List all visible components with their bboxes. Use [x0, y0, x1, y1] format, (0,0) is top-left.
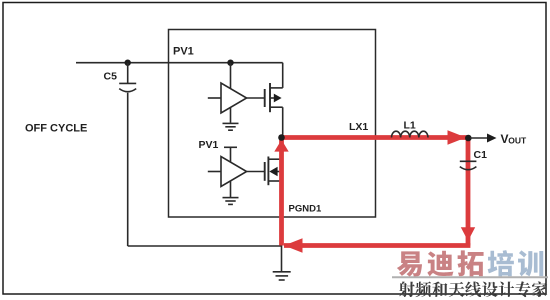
transistor M2 (low-side MOSFET)	[265, 138, 282, 247]
svg-text:PV1: PV1	[173, 46, 194, 58]
red current loop: LX to output	[282, 135, 469, 140]
watermark underline	[392, 276, 548, 278]
label VOUT	[501, 132, 528, 146]
wire: top input rail	[76, 62, 283, 64]
red arrow up	[274, 140, 288, 152]
red current loop: bottom return	[284, 243, 470, 248]
transistor M1 (high-side MOSFET)	[265, 83, 283, 112]
red arrow left	[284, 238, 303, 252]
svg-text:C5: C5	[104, 71, 118, 83]
red arrow down	[461, 227, 475, 241]
ground (system, bottom)	[273, 272, 291, 280]
node VOUT dot	[465, 135, 472, 142]
capacitor C1	[460, 161, 477, 169]
wire: supply into top driver	[230, 63, 232, 90]
svg-text:L1: L1	[404, 120, 416, 132]
red current loop: down through C1	[466, 138, 471, 246]
wire: drain drop from top rail	[282, 63, 284, 88]
red arrow right	[448, 130, 467, 144]
svg-text:PGND1: PGND1	[289, 204, 322, 215]
svg-text:LX1: LX1	[349, 121, 368, 133]
IC boundary box PV1	[169, 30, 376, 218]
svg-text:C1: C1	[474, 149, 488, 161]
ground (lower driver)	[223, 198, 239, 205]
ground (top driver)	[223, 123, 239, 130]
VOUT arrow	[470, 134, 497, 143]
watermark row2	[399, 281, 547, 297]
wire: lower driver ground stem	[230, 181, 232, 197]
node LX1 dot	[278, 134, 285, 141]
op-amp buffer U2 (lower driver)	[221, 157, 247, 187]
wire: bottom ground rail	[128, 245, 282, 247]
wire: top driver input	[208, 97, 221, 99]
red current loop: up to LX	[279, 140, 284, 246]
watermark logo row1	[397, 250, 543, 276]
svg-text:PV1: PV1	[199, 139, 219, 151]
wire: top driver ground stem	[230, 108, 232, 123]
wire: top driver output to gate	[247, 97, 265, 99]
capacitor C5	[119, 63, 136, 246]
wire: lower driver output to gate	[247, 171, 265, 173]
wire: lower driver input	[208, 171, 221, 173]
svg-text:OFF CYCLE: OFF CYCLE	[25, 123, 87, 135]
wire: M1 source down to LX node	[282, 107, 284, 137]
svg-text:OUT: OUT	[508, 136, 527, 146]
inductor L1	[392, 131, 428, 137]
supply stub PV1 for lower driver	[224, 147, 237, 163]
node: junction dot at C5 tap	[125, 60, 131, 66]
node: junction dot on top rail	[227, 60, 233, 66]
wire: ground stem at bottom rail	[281, 246, 283, 271]
op-amp buffer U1 (top driver)	[221, 83, 247, 113]
